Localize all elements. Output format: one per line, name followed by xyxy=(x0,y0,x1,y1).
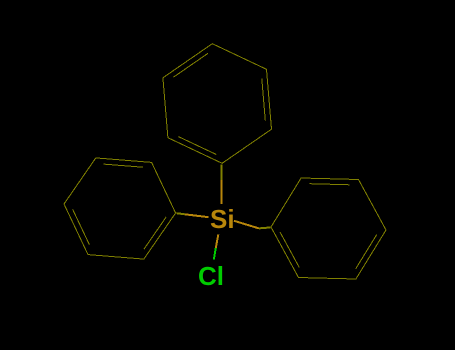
svg-text:Cl: Cl xyxy=(198,261,224,291)
svg-text:Si: Si xyxy=(210,204,235,234)
